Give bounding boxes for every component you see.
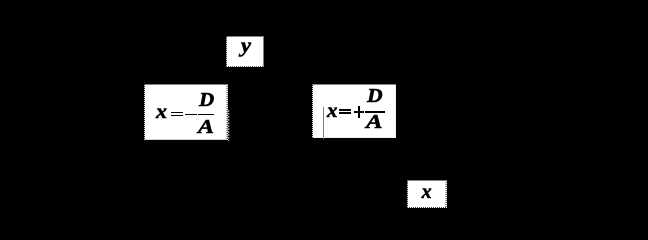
dotted border of formula box 1	[144, 84, 228, 141]
plus sign of box 2: vertical stroke	[358, 106, 361, 118]
fraction bar of box 1	[198, 114, 214, 116]
gray vertical line x=+D/A	[323, 107, 325, 139]
formula box x = -D/A	[144, 84, 228, 141]
equals sign of box 1	[171, 112, 183, 113]
denominator A of box 1	[198, 117, 214, 137]
numerator D of box 2	[367, 86, 383, 106]
axis label x	[422, 182, 432, 202]
denominator A of box 2	[366, 112, 383, 132]
label box y	[226, 36, 264, 67]
equals sign of box 2	[339, 109, 351, 111]
glyph x of box 1	[156, 102, 167, 122]
minus sign of box 1	[185, 114, 197, 116]
gray vertical line x=-D/A (dashed, at right border)	[227, 110, 231, 141]
numerator D of box 1	[199, 90, 214, 110]
fraction bar of box 2	[365, 111, 385, 113]
plus sign of box 2: horizontal stroke	[354, 111, 364, 113]
dotted border of label box y	[226, 36, 264, 68]
label box x	[407, 180, 447, 208]
dotted border of label box x	[407, 180, 447, 209]
formula box x = +D/A	[312, 84, 397, 139]
dotted border of formula box 2	[312, 84, 397, 139]
axis label y	[241, 36, 251, 56]
glyph x of box 2	[327, 101, 338, 121]
